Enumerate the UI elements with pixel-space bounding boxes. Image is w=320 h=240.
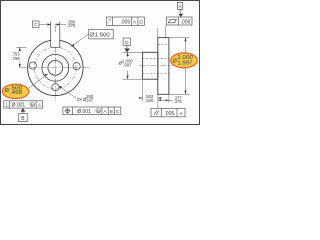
svg-text:Ø.001: Ø.001 [12, 103, 26, 109]
svg-text:.375: .375 [67, 23, 76, 28]
svg-text:.750: .750 [11, 56, 20, 61]
shared ext line at flange left [157, 95, 159, 109]
hub diameter ext line bottom [123, 78, 143, 80]
leader for 3X holes [59, 86, 76, 98]
slot dim stub to text [60, 24, 66, 26]
datum B stem [22, 112, 24, 114]
svg-text:.375: .375 [173, 99, 182, 104]
bolt hole right [73, 63, 80, 70]
svg-text:1.997: 1.997 [177, 60, 192, 66]
datum B box [19, 114, 28, 122]
flange ext line right [168, 95, 170, 103]
flange left face extension line up to FCF [157, 28, 159, 38]
flatness symbol [168, 19, 176, 22]
leader from Ø1.500 box to bolt circle [72, 34, 89, 46]
datum A stem [179, 9, 181, 13]
OD highlight ellipse [171, 53, 198, 68]
bore hidden line top [143, 57, 169, 59]
bore callout highlight ellipse [2, 84, 28, 98]
svg-text:Ø1.500: Ø1.500 [90, 33, 110, 39]
bore FCF box [4, 101, 43, 108]
hub diameter dim line [127, 52, 129, 57]
bolt hole left [29, 62, 36, 69]
center bore circle [48, 60, 63, 75]
svg-text:.005: .005 [181, 19, 191, 25]
svg-text:M: M [31, 103, 34, 107]
side view center line [140, 65, 173, 67]
svg-text:.005: .005 [120, 19, 130, 25]
svg-text:M: M [97, 109, 100, 113]
leader from flatness FCF to flange right face [165, 25, 167, 37]
svg-text:D: D [125, 40, 129, 46]
slot right edge [59, 22, 61, 48]
svg-text:.997: .997 [123, 62, 132, 67]
parallelism FCF box [151, 108, 185, 116]
front view vertical center line [54, 26, 56, 101]
bolt hole bottom [52, 84, 59, 91]
datum D triangle [124, 49, 130, 53]
leader from bore callout to bore [29, 74, 47, 88]
slot left edge [50, 22, 52, 48]
OD dim line [185, 38, 187, 54]
svg-text:.005: .005 [164, 111, 174, 117]
flange rectangle (side view) [158, 38, 169, 95]
slot depth dim line with arrows [19, 47, 21, 51]
front view horizontal center line [20, 67, 91, 69]
hub length ext line left [142, 80, 144, 102]
bolt circle (dashed) [35, 47, 77, 89]
svg-text:Ø.001: Ø.001 [77, 109, 91, 115]
OD dim extension bottom [169, 93, 189, 95]
svg-text:C: C [34, 22, 38, 28]
svg-text:.498: .498 [10, 90, 22, 96]
datum B triangle [21, 108, 26, 112]
slot depth ext line [16, 46, 26, 48]
svg-text:B: B [110, 109, 113, 115]
svg-text:.500: .500 [145, 98, 154, 103]
datum D box [123, 38, 130, 45]
hole pattern FCF box [63, 107, 121, 115]
slot notch mask [51, 33, 59, 47]
slot dim right arrow [55, 24, 61, 26]
svg-text:.247: .247 [85, 98, 94, 103]
flatness FCF box [166, 17, 192, 25]
flange thickness dim line [158, 99, 173, 101]
slot bottom [51, 46, 60, 48]
datum C leader (left arrow of slot dim) [39, 24, 48, 26]
datum A triangle [178, 14, 183, 17]
hub length dim arrows [139, 97, 143, 99]
outer circle of flange (front view) [28, 40, 83, 95]
svg-text:C: C [116, 109, 120, 115]
slot hidden line [158, 44, 169, 46]
OD dim extension top [169, 37, 189, 39]
hub silhouette circle [42, 54, 69, 81]
svg-text:D: D [139, 19, 143, 25]
datum C box [33, 21, 40, 27]
datum A box [177, 2, 183, 9]
hub diameter ext line top [123, 51, 143, 53]
parallelism symbol [154, 110, 157, 115]
datum D stem [126, 45, 128, 48]
hub rectangle (side view) [143, 52, 158, 79]
top FCF box [106, 17, 144, 25]
bore hidden line bottom [143, 72, 169, 74]
perpendicularity symbol [6, 103, 8, 107]
border frame [1, 1, 200, 125]
runout symbol [108, 19, 111, 23]
position symbol [66, 109, 70, 113]
basic dim box Ø1.500 [89, 29, 113, 39]
